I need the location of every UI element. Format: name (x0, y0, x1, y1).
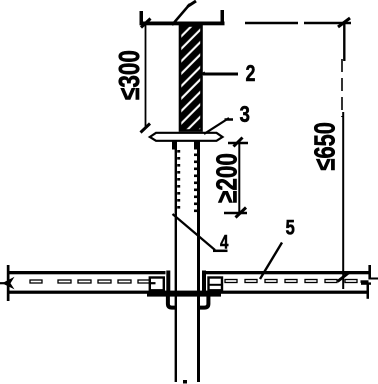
svg-text:5: 5 (286, 217, 296, 240)
leader 2 (196, 73, 205, 78)
node: right ledger end bar (202, 271, 206, 297)
ledger 5: top line (8, 271, 166, 274)
ledger 5: left break mark (7, 265, 10, 301)
dimension ≤300 line (145, 23, 147, 128)
svg-text:≥200: ≥200 (212, 153, 243, 203)
node: right hook (200, 296, 209, 308)
node: right coupler box (209, 278, 223, 291)
node: left coupler box (150, 278, 164, 291)
svg-text:≤300: ≤300 (114, 50, 145, 100)
node: left ledger end bar (166, 271, 170, 297)
dimension ≤650 extension line (top) (245, 22, 298, 25)
ledger 5: dashed centre line (hollow dashes) (30, 280, 369, 284)
screw rod 4: left edge (175, 141, 177, 383)
timber beam 2 (hatched) (180, 26, 202, 131)
node: left hook (168, 296, 177, 308)
leader to item 1 (cut off at top edge) (172, 4, 190, 25)
svg-text:2: 2 (246, 61, 256, 87)
bottom break tick (183, 380, 187, 384)
node: thick bottom band (147, 293, 221, 297)
svg-text:4: 4 (220, 231, 229, 253)
svg-text:≤650: ≤650 (310, 122, 342, 170)
leader 5 (260, 243, 282, 280)
U-head plate (item 3) (150, 133, 223, 141)
nut stubs under plate (172, 141, 177, 150)
dimension ≤650 vertical line (343, 24, 345, 61)
svg-text:3: 3 (240, 101, 251, 128)
top bearer flange (item 1) (140, 22, 225, 26)
screw rod 4: right edge (197, 141, 200, 383)
dimension ≥200 line (238, 141, 240, 214)
ledger 5: bottom line (8, 291, 367, 294)
leader 4 (173, 214, 216, 250)
threads (177, 150, 197, 212)
leader 3 (204, 118, 229, 134)
ledger 5: right break mark (368, 265, 371, 280)
